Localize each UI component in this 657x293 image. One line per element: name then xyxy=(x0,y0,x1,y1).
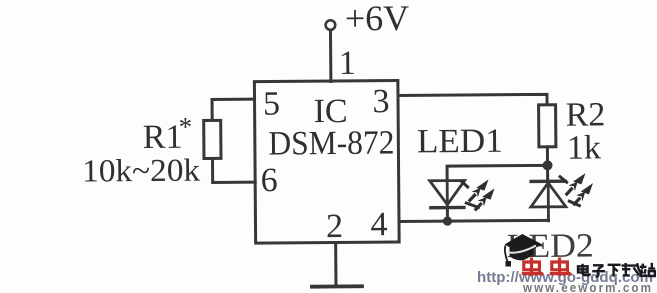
watermark url www.eeworm.com xyxy=(522,281,653,293)
label LED2 xyxy=(507,227,594,265)
pin number 4 xyxy=(370,206,387,243)
svg-text:1: 1 xyxy=(339,45,356,82)
resistor R2 xyxy=(539,105,556,147)
op IC U1 box DSM-872 xyxy=(254,81,399,244)
pin number 2 xyxy=(326,208,343,245)
label 10k~20k xyxy=(82,152,200,189)
label +6V xyxy=(345,0,410,38)
wire R1 bottom to pin6 xyxy=(212,158,255,182)
wire pin1 vertical from +6V terminal to IC top xyxy=(329,30,332,81)
svg-text:1k: 1k xyxy=(567,129,601,166)
LED1 light emission arrows xyxy=(462,177,498,213)
svg-text:www.eeworm.com: www.eeworm.com xyxy=(522,281,653,293)
watermark 虫 character 1 xyxy=(522,258,543,277)
ground xyxy=(312,284,362,288)
LED LED2 (cathode top, anti-parallel) xyxy=(531,165,566,221)
wire pin3 to R2 top xyxy=(398,94,547,106)
svg-text:10k~20k: 10k~20k xyxy=(82,152,200,189)
svg-text:6: 6 xyxy=(261,162,278,199)
watermark logo graduation cap xyxy=(505,234,543,267)
node junction dot under R2 xyxy=(543,160,553,170)
label IC xyxy=(313,93,347,130)
glyph 子 xyxy=(592,265,605,276)
svg-text:4: 4 xyxy=(370,206,387,243)
label LED1 xyxy=(417,123,503,161)
pin number 6 xyxy=(261,162,278,199)
label DSM-872 xyxy=(268,125,394,163)
svg-text:DSM-872: DSM-872 xyxy=(268,125,394,163)
LED LED1 (anode top) xyxy=(430,180,465,221)
power terminal +6V xyxy=(326,20,336,30)
watermark url http://www.go-gddq.com xyxy=(477,270,653,286)
resistor R1 xyxy=(204,120,221,158)
svg-text:3: 3 xyxy=(372,83,389,120)
pin number 1 xyxy=(339,45,356,82)
svg-text:*: * xyxy=(179,112,193,142)
wire junction to LED1 top xyxy=(447,165,548,180)
svg-text:5: 5 xyxy=(263,85,280,122)
wire pin2 to ground xyxy=(334,243,337,286)
watermark text 电子下载站 (drawn strokes) xyxy=(578,263,655,277)
pin number 5 xyxy=(263,85,280,122)
node junction dot at LED1 bottom xyxy=(443,216,452,225)
glyph 电 xyxy=(578,264,590,275)
glyph 站 xyxy=(639,263,655,276)
label 1k xyxy=(567,129,601,166)
pin number 3 xyxy=(372,83,389,120)
svg-text:R2: R2 xyxy=(566,96,606,133)
label R2 xyxy=(566,96,606,133)
wire R2 bottom to junction xyxy=(546,147,549,165)
svg-text:+6V: +6V xyxy=(345,0,410,38)
wire bottom rail pin4 to LED2 bottom xyxy=(399,220,548,221)
svg-text:2: 2 xyxy=(326,208,343,245)
svg-text:LED1: LED1 xyxy=(417,123,503,161)
LED2 light emission arrows xyxy=(560,170,596,207)
watermark 虫 character 2 xyxy=(550,258,571,277)
wire pin5 to R1 top xyxy=(212,99,255,120)
svg-text:R1: R1 xyxy=(143,119,183,156)
glyph 载 xyxy=(622,263,644,275)
label R1* xyxy=(143,112,193,156)
glyph 下 xyxy=(608,265,621,277)
